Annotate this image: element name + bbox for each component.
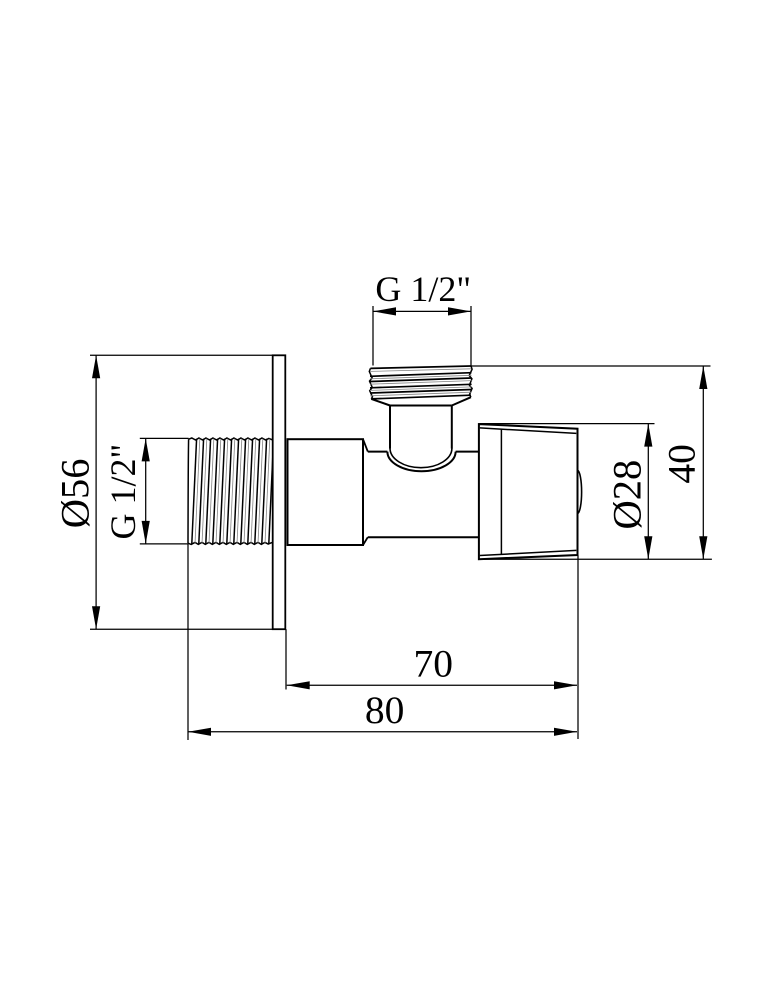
handle rim band top <box>480 428 577 434</box>
dimension line 40 <box>702 366 704 559</box>
arrow 40 bottom <box>699 536 707 559</box>
dimension line 80 <box>188 731 577 733</box>
svg-text:Ø56: Ø56 <box>52 459 97 529</box>
handle rim band bottom <box>480 550 577 555</box>
arrow left G12 bottom <box>142 521 150 544</box>
handle outline <box>479 424 578 559</box>
vertical port chamfer <box>371 397 471 405</box>
extension line top port left <box>372 306 374 366</box>
extension line handle top (dia28) <box>479 423 654 425</box>
dimension line top G 1/2 <box>373 310 471 312</box>
svg-text:70: 70 <box>414 642 454 686</box>
arrow 80 left <box>188 728 211 736</box>
stem to handle <box>368 452 479 538</box>
arrow dia28 top <box>644 424 652 447</box>
arrow 70 left <box>287 681 310 689</box>
extension line 80 left <box>187 544 189 740</box>
extension line handle bottom shared <box>479 558 712 560</box>
extension line top port right <box>470 306 472 366</box>
label dia28 <box>604 460 649 530</box>
arrow dia28 bottom <box>644 536 652 559</box>
outlet dome inner arc <box>390 448 452 467</box>
arrow dia56 top <box>92 355 100 378</box>
arrow 70 right <box>554 681 577 689</box>
arrow 40 top <box>699 366 707 389</box>
svg-text:40: 40 <box>659 444 703 484</box>
svg-text:G 1/2": G 1/2" <box>375 269 471 309</box>
handle cap bulge arc <box>578 470 582 513</box>
left thread G 1/2 outline <box>188 438 273 544</box>
extension line flange bottom (dia56) <box>90 628 273 630</box>
dimension line 70 <box>287 684 577 686</box>
label 40 <box>659 444 703 484</box>
extension line left thread top (G 1/2) <box>140 437 189 439</box>
left thread crest lines <box>192 439 274 544</box>
svg-text:80: 80 <box>365 688 405 732</box>
extension line 70-80 right <box>577 555 579 739</box>
label dia56 <box>52 459 97 529</box>
extension line thread top to 40 dim <box>471 365 711 367</box>
dimension line left G 1/2 <box>145 438 147 544</box>
outlet dome outer arc <box>387 452 455 472</box>
top thread crest lines <box>370 366 472 399</box>
svg-text:G 1/2": G 1/2" <box>103 444 143 540</box>
body shoulder chamfer top <box>363 439 368 451</box>
extension line flange top (dia56) <box>90 354 273 356</box>
vertical port neck <box>390 406 452 449</box>
body shoulder chamfer bottom <box>363 537 368 545</box>
handle inner vertical line <box>500 429 502 554</box>
dimension line dia28 <box>647 424 649 560</box>
valve body main block <box>288 439 364 545</box>
arrow 80 right <box>554 728 577 736</box>
left thread echo lines <box>195 439 270 544</box>
label left G 1/2 <box>103 444 143 540</box>
top thread G 1/2 outline <box>369 366 472 399</box>
extension line left thread bottom (G 1/2) <box>140 543 188 545</box>
extension line 70 left <box>285 629 287 689</box>
arrow dia56 bottom <box>92 606 100 629</box>
arrow top G12 left <box>373 307 396 315</box>
svg-text:Ø28: Ø28 <box>604 460 649 530</box>
wall flange plate <box>273 355 286 629</box>
arrow left G12 top <box>142 438 150 461</box>
arrow top G12 right <box>448 307 471 315</box>
dimension line dia56 <box>95 355 97 629</box>
top thread echo lines <box>370 369 472 396</box>
